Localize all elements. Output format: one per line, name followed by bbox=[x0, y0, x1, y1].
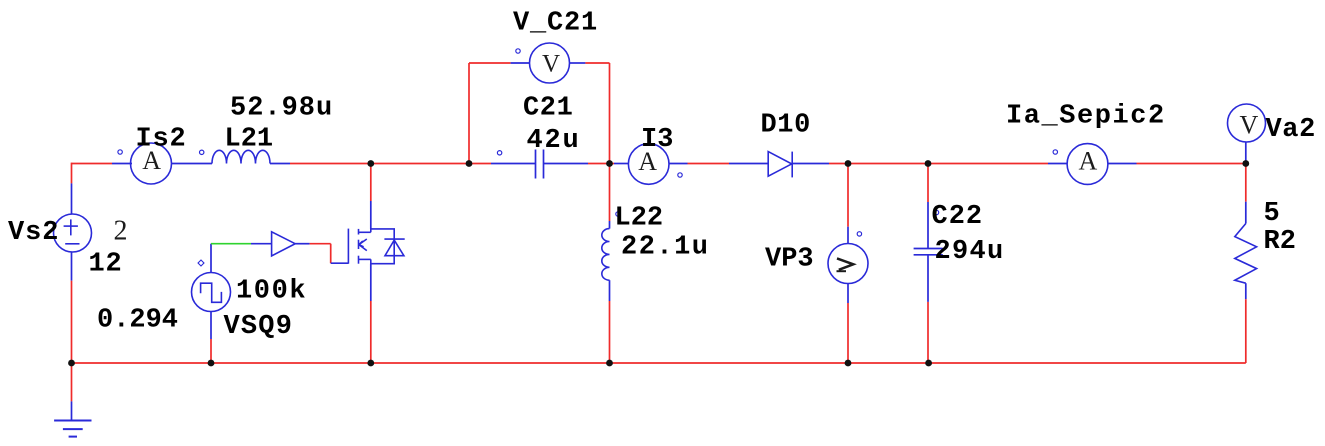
wire gate hook vertical (red) bbox=[330, 244, 332, 264]
wire gate hook horizontal (blue) bbox=[331, 262, 349, 264]
node marker before L21 bbox=[200, 150, 204, 154]
svg-text:VP3: VP3 bbox=[765, 245, 814, 275]
wire L22 top stub (blue) bbox=[609, 221, 611, 229]
gate driver (buffer) triangle bbox=[272, 232, 296, 256]
voltage probe VP3 bbox=[828, 244, 868, 284]
wire V_C21 top left horizontal (red then blue) bbox=[469, 62, 511, 64]
wire bottom rail (red) bbox=[72, 362, 1246, 364]
wire V_C21 left vertical (red) bbox=[468, 63, 470, 164]
svg-text:D10: D10 bbox=[761, 111, 811, 141]
wire node to I3 (blue) bbox=[614, 163, 629, 165]
wire C22 node to Ia meter (red then blue) bbox=[928, 163, 1048, 165]
wire Ia meter to Va2 node (blue then red) bbox=[1108, 163, 1137, 165]
svg-text:L21: L21 bbox=[225, 125, 274, 155]
wire node to C21 left (red then blue) bbox=[469, 163, 491, 165]
wire C22 bottom (blue then red) bbox=[927, 255, 929, 302]
capacitor C21 bbox=[536, 150, 544, 179]
svg-text:I3: I3 bbox=[641, 125, 673, 155]
voltage source Vs2 bbox=[54, 214, 92, 252]
node marker VP3 bbox=[857, 232, 861, 236]
node marker after I3 bbox=[678, 173, 682, 177]
svg-text:2: 2 bbox=[114, 216, 128, 247]
node marker V_C21 bbox=[516, 49, 520, 53]
wire L22 bottom (blue then red) bbox=[609, 280, 611, 301]
svg-text:5: 5 bbox=[1264, 199, 1280, 229]
svg-text:294u: 294u bbox=[935, 237, 1005, 267]
node marker near VSQ9 (diamond) bbox=[198, 260, 204, 266]
ground bbox=[54, 421, 91, 437]
voltmeter Va2 bbox=[1228, 104, 1266, 142]
wire C22 top (red then blue) bbox=[927, 164, 929, 203]
svg-text:0.294: 0.294 bbox=[97, 306, 178, 336]
ammeter I3 bbox=[628, 144, 669, 185]
svg-text:42u: 42u bbox=[527, 126, 581, 156]
wire ground branch (red then blue) bbox=[71, 363, 73, 401]
svg-text:Is2: Is2 bbox=[136, 125, 187, 155]
ammeter Is2 bbox=[131, 143, 172, 184]
wire Vs2 branch lower (blue then red) bbox=[71, 252, 73, 281]
wire gate drive green segment bbox=[211, 243, 251, 245]
inductor L22 bbox=[602, 229, 610, 281]
wire Va2 to node (blue) bbox=[1245, 142, 1247, 164]
wire R2 top (red then blue) bbox=[1245, 164, 1247, 202]
svg-text:22.1u: 22.1u bbox=[621, 233, 710, 263]
wire D10 to node (blue then red) bbox=[792, 163, 829, 165]
svg-text:Va2: Va2 bbox=[1266, 115, 1316, 145]
wire top rail segment into Is2 (blue) bbox=[112, 163, 132, 165]
ammeter Ia_Sepic2 bbox=[1067, 144, 1108, 185]
wire driver out (blue then red) bbox=[295, 243, 309, 245]
svg-text:V: V bbox=[1240, 111, 1259, 140]
node marker before Is2 bbox=[118, 150, 122, 154]
wire Vs2 branch upper (red then blue) bbox=[71, 163, 73, 184]
svg-text:V_C21: V_C21 bbox=[513, 9, 598, 39]
svg-text:A: A bbox=[1079, 146, 1098, 175]
resistor R2 bbox=[1235, 224, 1257, 284]
wire R2 bottom (blue then red) bbox=[1245, 283, 1247, 299]
wire VP3 bottom (blue then red) bbox=[847, 284, 849, 304]
node marker before C21 bbox=[497, 151, 501, 155]
svg-text:V: V bbox=[542, 51, 560, 78]
wire L21 to node (blue then red) bbox=[270, 163, 290, 165]
transistor Q1 MOSFET bbox=[348, 229, 404, 264]
svg-text:VSQ9: VSQ9 bbox=[224, 312, 294, 342]
svg-text:C21: C21 bbox=[523, 94, 573, 124]
svg-text:C22: C22 bbox=[932, 202, 984, 232]
node marker before Ia meter bbox=[1053, 150, 1057, 154]
svg-text:Ia_Sepic2: Ia_Sepic2 bbox=[1006, 102, 1166, 132]
capacitor C22 bbox=[914, 249, 943, 255]
svg-text:R2: R2 bbox=[1264, 227, 1296, 257]
wire VP3 top (red then blue) bbox=[847, 164, 849, 227]
node marker C22 bbox=[934, 210, 938, 214]
diode D10 bbox=[768, 152, 792, 178]
wire V_C21 top right horizontal (blue then red) bbox=[570, 62, 586, 64]
svg-text:Vs2: Vs2 bbox=[8, 218, 59, 248]
wire Is2 to L21 (blue) bbox=[172, 163, 212, 165]
voltmeter V_C21 bbox=[530, 43, 570, 83]
wire C21 right to node (blue then red) bbox=[544, 163, 589, 165]
node marker L22 bbox=[616, 212, 620, 216]
node B junction dots bottom rail bbox=[68, 360, 932, 367]
svg-text:100k: 100k bbox=[236, 277, 307, 307]
svg-text:L22: L22 bbox=[615, 204, 664, 234]
svg-text:52.98u: 52.98u bbox=[230, 94, 333, 124]
wire node to C22 node (red) bbox=[848, 163, 928, 165]
square-wave source VSQ9 bbox=[192, 273, 231, 312]
wire L22 top (red) bbox=[609, 164, 611, 222]
inductor L21 bbox=[212, 150, 270, 163]
wire VSQ9 top to gate line (blue) bbox=[210, 244, 212, 273]
wire V_C21 right vertical (red) bbox=[609, 63, 611, 164]
wire VSQ9 bottom to rail (blue then red) bbox=[210, 312, 212, 340]
wire top rail segment from Vs2 corner (red) bbox=[72, 163, 113, 165]
svg-text:12: 12 bbox=[89, 250, 123, 280]
wire MOSFET drain (red then blue) bbox=[370, 164, 372, 202]
wire gate drive blue segment bbox=[251, 243, 272, 245]
node A junction dots top rail bbox=[367, 160, 1249, 167]
wire I3 to D10 (blue then red) bbox=[670, 163, 688, 165]
wire MOSFET source (blue then red) bbox=[370, 264, 372, 301]
